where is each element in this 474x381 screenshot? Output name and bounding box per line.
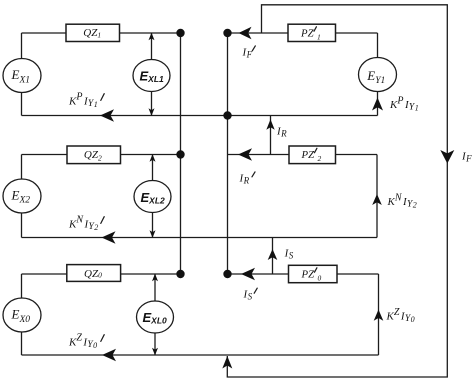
svg-text:QZ0: QZ0 [84,268,102,280]
svg-text:KPIY1: KPIY1 [389,96,419,113]
svg-text:IS: IS [284,248,294,261]
svg-text:KZIY0: KZIY0 [68,333,97,350]
svg-text:IF: IF [242,47,253,60]
svg-text:IR: IR [276,126,287,139]
svg-text:IR: IR [239,173,250,186]
svg-text:IF: IF [461,151,472,164]
svg-text:KNIY2: KNIY2 [68,215,98,232]
svg-text:KZIY0: KZIY0 [386,307,415,324]
svg-text:IS: IS [243,289,253,302]
svg-text:KNIY2: KNIY2 [387,193,417,210]
svg-text:KPIY1: KPIY1 [68,92,98,109]
